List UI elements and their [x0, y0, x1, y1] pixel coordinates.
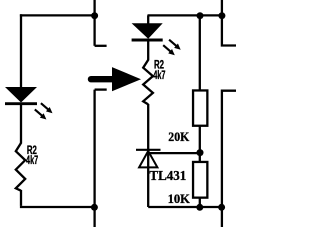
wire: R2 through TL431 to bottom rail: [147, 104, 149, 207]
LED D1 cathode bar: [5, 102, 37, 105]
node: right top bus junction: [218, 12, 225, 19]
wire: left bottom bus to edge: [93, 207, 95, 227]
node: divider junction: [197, 149, 204, 156]
wire: 20K to junction: [199, 126, 201, 153]
TL431 U1 triangle: [139, 151, 157, 167]
resistor R2 (right) zigzag: [143, 60, 153, 105]
wire: upper cut stub to right edge: [222, 15, 236, 45]
wire: lower cut stub (left circuit): [95, 88, 107, 90]
LED D2 cathode bar: [132, 39, 163, 42]
wire: junction to 10K: [199, 153, 201, 162]
TL431 U1 cathode bar: [136, 149, 161, 151]
wire: TL431 ref to divider junction: [148, 152, 201, 154]
svg-text:4k7: 4k7: [26, 153, 38, 167]
wire: R2 to bottom rail: [20, 190, 22, 206]
resistor 10K box: [193, 162, 207, 198]
LED D1 (left) triangle: [5, 87, 37, 103]
svg-text:TL431: TL431: [149, 168, 186, 183]
wire: top rail to 20K: [199, 15, 201, 90]
LED D2 light arrow 2: [163, 45, 175, 55]
wire: LED D2 anode lead: [147, 15, 149, 23]
wire: left top bus from edge: [93, 0, 95, 46]
node: right bottom junction: [218, 204, 225, 211]
svg-text:4k7: 4k7: [153, 68, 165, 82]
node: 10K bottom junction: [196, 204, 203, 211]
node: left top junction: [91, 12, 98, 19]
node: left bottom junction: [91, 204, 98, 211]
svg-text:20K: 20K: [168, 130, 189, 144]
resistor R2 (left) zigzag: [16, 143, 25, 191]
wire: right bottom bus to edge: [221, 207, 223, 227]
LED D2 light arrow 1: [169, 40, 181, 50]
LED D2 (right) triangle: [132, 23, 163, 39]
wire: right top bus from edge: [221, 0, 223, 15]
wire: lower cut stub from right edge: [222, 91, 236, 207]
wire: right circuit bottom rail: [148, 206, 222, 208]
wire: left riser (cut branch lower): [93, 90, 95, 207]
big transformation arrow: [91, 67, 141, 91]
wire: 10K to bottom rail: [199, 198, 201, 208]
svg-text:10K: 10K: [168, 192, 190, 206]
node: right top junction (divider): [197, 12, 204, 19]
wire: D2 cathode to R2: [147, 41, 149, 60]
wire: D1 cathode to R2: [20, 104, 22, 144]
wire: left circuit bottom rail: [20, 206, 95, 208]
wire: left circuit top horizontal: [20, 14, 95, 16]
wire: upper cut stub (left circuit): [95, 45, 107, 47]
resistor 20K box: [193, 90, 207, 125]
wire: left circuit left vertical (anode feed): [20, 14, 22, 87]
LED D1 light arrow 2: [35, 109, 47, 119]
wire: right circuit top rail: [148, 14, 222, 16]
LED D1 light arrow 1: [41, 103, 53, 113]
